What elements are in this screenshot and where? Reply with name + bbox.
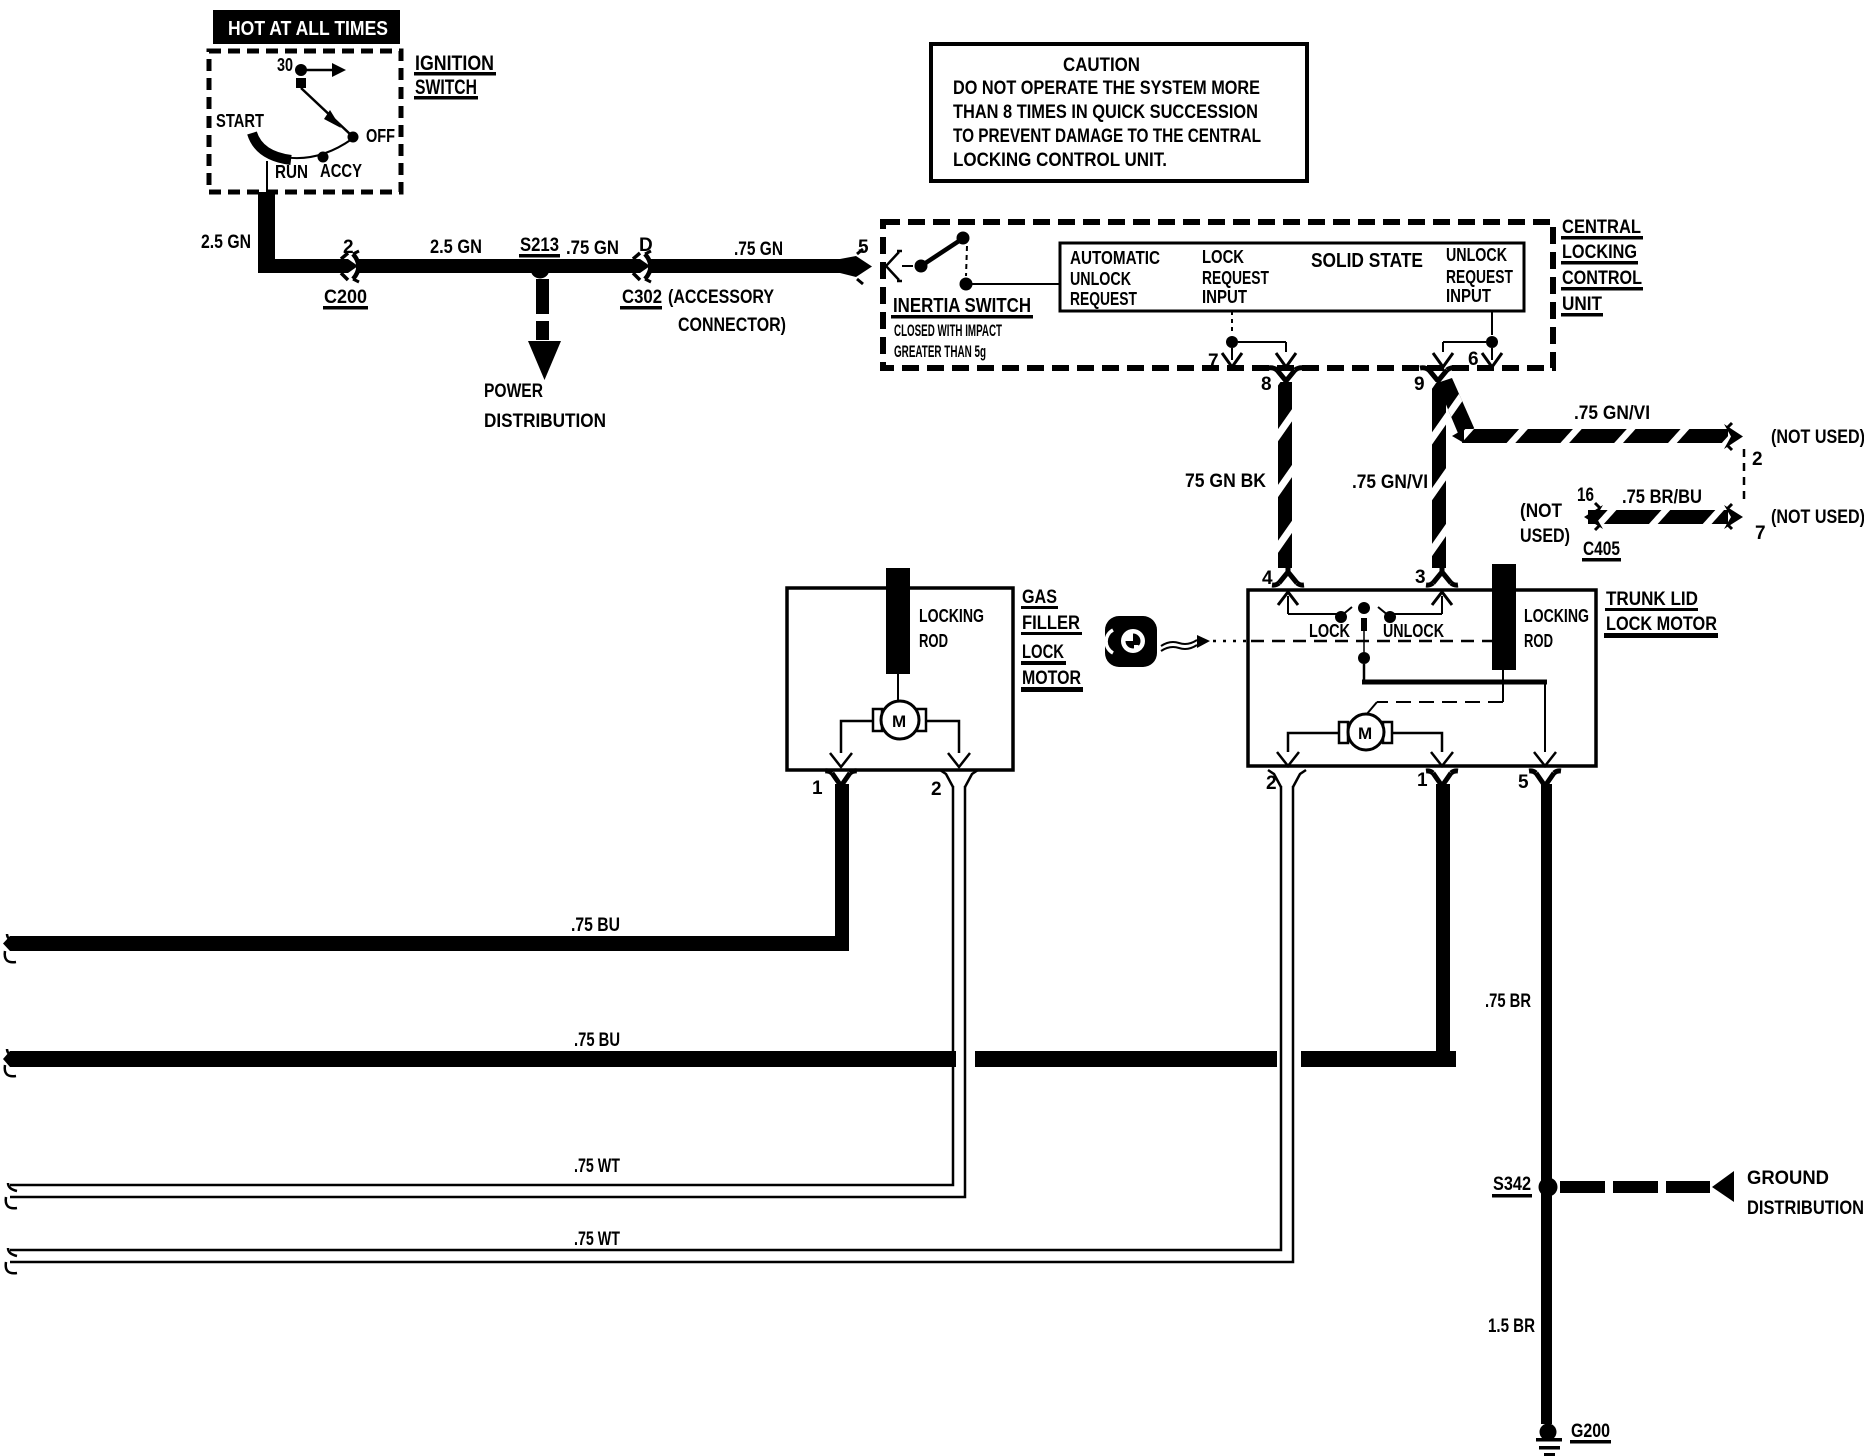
svg-text:6: 6 [1468,349,1479,370]
svg-text:LOCKING: LOCKING [1562,242,1637,263]
svg-text:DO NOT OPERATE THE SYSTEM MORE: DO NOT OPERATE THE SYSTEM MORE [953,78,1260,99]
svg-text:.75 WT: .75 WT [574,1156,620,1177]
svg-text:GAS: GAS [1022,587,1057,608]
dashed link between not-used pins [1743,449,1746,504]
rod link to motor [897,674,899,701]
key dashed line inside trunk box [1251,640,1492,643]
pin 7 female arrow [1222,353,1242,367]
wire .75 BU gas pin 1 [3,784,849,962]
svg-text:INPUT: INPUT [1202,287,1247,307]
splice S342 [1492,1174,1558,1198]
svg-text:G200: G200 [1571,1421,1610,1442]
svg-text:START: START [216,111,264,131]
svg-text:.75 BU: .75 BU [571,915,620,936]
svg-text:UNLOCK: UNLOCK [1070,269,1131,289]
branch wire .75 GN/VI to not used [1437,378,1743,450]
svg-text:MOTOR: MOTOR [1022,668,1081,689]
svg-text:REQUEST: REQUEST [1446,267,1513,287]
svg-text:.75 BU: .75 BU [574,1030,620,1051]
svg-text:LOCK: LOCK [1022,642,1064,663]
ground distribution dashed wire [1560,1168,1864,1219]
svg-text:ACCY: ACCY [320,161,362,181]
svg-text:2.5 GN: 2.5 GN [201,232,251,253]
wire inside box [266,161,268,192]
caution box [931,44,1307,181]
svg-text:INPUT: INPUT [1446,286,1491,306]
pin 4 male connector [1262,566,1304,589]
svg-text:ROD: ROD [1524,631,1553,651]
svg-text:30: 30 [277,55,293,75]
wire .75 BR trunk pin 5 to ground [1541,784,1552,1424]
svg-text:UNIT: UNIT [1562,294,1602,315]
solid state inner box [1060,243,1524,311]
svg-text:.75 GN/VI: .75 GN/VI [1352,472,1428,493]
svg-text:REQUEST: REQUEST [1070,289,1137,309]
svg-text:8: 8 [1261,374,1272,395]
trunk pin 4 female arrow [1278,592,1298,614]
svg-text:C200: C200 [324,287,367,308]
svg-text:INERTIA SWITCH: INERTIA SWITCH [893,295,1031,317]
svg-text:CONTROL: CONTROL [1562,268,1642,289]
svg-text:CONNECTOR): CONNECTOR) [678,315,786,336]
ACCY dot [318,152,329,163]
inertia switch [891,232,1060,362]
main feed bus wire [258,259,348,273]
svg-text:THAN 8 TIMES IN QUICK SUCCESSI: THAN 8 TIMES IN QUICK SUCCESSION [953,102,1258,123]
gas filler motor M [873,701,926,739]
power distribution drop from S213 [484,279,606,432]
svg-text:SOLID STATE: SOLID STATE [1311,250,1423,272]
svg-text:OFF: OFF [366,126,395,146]
svg-text:9: 9 [1414,374,1425,395]
svg-text:7: 7 [1208,351,1219,372]
pin 9 female arrow [1433,353,1453,367]
splice S213 [519,235,560,279]
svg-text:SWITCH: SWITCH [415,76,477,99]
gas motor wires to pins [841,721,959,753]
svg-text:16: 16 [1577,485,1594,506]
terminal 30 dot [295,64,307,76]
TRUNK LID LOCK MOTOR label [1604,589,1718,638]
svg-text:UNLOCK: UNLOCK [1446,245,1507,265]
svg-text:TRUNK LID: TRUNK LID [1606,589,1698,610]
key symbol [1105,616,1157,667]
pin 5 female arrow inside CLCU [886,251,902,281]
svg-text:TO PREVENT DAMAGE TO THE CENTR: TO PREVENT DAMAGE TO THE CENTRAL [953,126,1261,147]
svg-text:75 GN BK: 75 GN BK [1185,471,1266,492]
svg-text:2: 2 [343,237,354,258]
svg-text:IGNITION: IGNITION [415,52,494,75]
svg-text:FILLER: FILLER [1022,613,1080,634]
trunk lock switch [1288,602,1444,664]
svg-text:CENTRAL: CENTRAL [1562,217,1641,238]
arrow from 30 [301,69,332,72]
connector C200 [323,237,368,310]
svg-text:REQUEST: REQUEST [1202,268,1269,288]
svg-text:DISTRIBUTION: DISTRIBUTION [1747,1198,1864,1219]
svg-text:C405: C405 [1583,539,1620,560]
svg-text:7: 7 [1755,523,1766,544]
HOT AT ALL TIMES banner [213,10,400,44]
svg-text:(ACCESSORY: (ACCESSORY [668,287,774,308]
svg-text:GROUND: GROUND [1747,1168,1829,1189]
svg-text:.75 BR: .75 BR [1485,991,1531,1012]
svg-text:CLOSED WITH IMPACT: CLOSED WITH IMPACT [894,321,1002,340]
svg-text:RUN: RUN [275,162,308,182]
svg-text:M: M [892,712,906,731]
unlock request output node [1443,311,1498,360]
rotor wiper [252,133,291,160]
svg-text:3: 3 [1415,567,1426,588]
pin 9 male connector [1414,368,1456,395]
svg-text:GREATER THAN 5g: GREATER THAN 5g [894,342,986,361]
svg-text:.75 WT: .75 WT [574,1229,620,1250]
wire .75 WT trunk pin 2 [6,786,1293,1273]
female arrows at trunk box bottom [1277,752,1556,766]
svg-text:LOCK MOTOR: LOCK MOTOR [1606,614,1717,635]
pin 8 male connector [1261,368,1304,395]
svg-text:S342: S342 [1493,1174,1531,1195]
svg-text:D: D [639,235,653,256]
trunk locking rod [1492,564,1516,670]
wire .75 GN/VI pin 9 to pin 3 [1432,382,1446,568]
contact square [296,78,306,88]
svg-text:.75 GN: .75 GN [566,238,619,259]
svg-text:S213: S213 [520,235,559,256]
svg-text:CAUTION: CAUTION [1063,55,1140,76]
switch output wire to pin 5 [1362,664,1547,752]
svg-text:4: 4 [1262,568,1273,589]
pin 6 female arrow [1482,353,1502,367]
svg-text:LOCK: LOCK [1202,247,1244,267]
svg-text:LOCK: LOCK [1309,621,1350,641]
svg-text:.75 BR/BU: .75 BR/BU [1622,487,1702,508]
svg-text:2: 2 [1752,449,1763,470]
pin 8 female arrow [1276,353,1296,367]
ground G200 [1536,1421,1611,1456]
ignition switch internals [216,55,395,192]
svg-text:.75 GN: .75 GN [734,239,783,260]
gas pin 1 male connector [812,771,857,799]
svg-text:5: 5 [858,237,869,258]
svg-text:(NOT: (NOT [1520,501,1562,522]
trunk motor M [1339,714,1392,750]
GAS FILLER LOCK MOTOR label [1021,587,1083,692]
bus flare at pin 5 [840,256,856,277]
svg-text:M: M [1358,724,1372,743]
wire 75 GN BK pin 8 to pin 4 [1278,382,1292,568]
svg-text:HOT AT ALL TIMES: HOT AT ALL TIMES [228,18,388,40]
key actuation dashed arrow [1161,635,1246,651]
position arc [256,139,352,158]
wire .75 BR/BU not used [1520,485,1864,562]
svg-text:POWER: POWER [484,381,543,402]
svg-text:(NOT USED): (NOT USED) [1771,507,1864,528]
switch blade to OFF [301,88,351,135]
female arrows at gas box bottom [830,753,970,767]
trunk pin 2 male connector (white wire) [1266,770,1306,794]
svg-text:1: 1 [812,778,823,799]
trunk pin 3 female arrow [1432,592,1452,614]
svg-text:ROD: ROD [919,631,948,651]
trunk pin 5 male connector [1518,771,1561,793]
svg-text:2: 2 [931,779,942,800]
svg-text:UNLOCK: UNLOCK [1383,621,1444,641]
wire .75 WT gas pin 2 [6,786,965,1208]
gas filler lock motor box [787,588,1013,770]
trunk motor wires to pins [1288,733,1442,752]
CENTRAL LOCKING CONTROL UNIT label [1561,217,1643,317]
wire 2.5 GN from ignition switch [258,192,275,273]
rod feedback dashed wire [1366,670,1503,715]
gas pin 2 male connector (white wire) [931,770,978,800]
svg-text:USED): USED) [1520,526,1570,547]
trunk pin 1 male connector [1417,770,1458,791]
svg-text:5: 5 [1518,772,1529,793]
svg-text:1.5 BR: 1.5 BR [1488,1316,1535,1337]
central locking control unit dashed box [883,222,1553,368]
gas filler locking rod [886,568,910,674]
svg-text:LOCKING: LOCKING [919,606,984,626]
svg-text:LOCKING CONTROL UNIT.: LOCKING CONTROL UNIT. [953,150,1167,171]
connector C302 [620,235,786,336]
svg-text:C302: C302 [622,287,662,308]
ignition switch dashed box [209,51,401,192]
svg-text:(NOT USED): (NOT USED) [1771,427,1864,448]
svg-text:DISTRIBUTION: DISTRIBUTION [484,411,606,432]
lock request output node [1226,311,1286,360]
svg-text:LOCKING: LOCKING [1524,606,1589,626]
svg-text:AUTOMATIC: AUTOMATIC [1070,248,1160,268]
svg-text:2.5 GN: 2.5 GN [430,237,482,258]
IGNITION SWITCH label [414,52,496,100]
OFF dot [348,132,359,143]
svg-text:.75 GN/VI: .75 GN/VI [1574,403,1650,424]
pin 3 male connector [1415,566,1458,588]
trunk lid lock motor box [1248,590,1596,766]
wire .75 BU trunk pin 1 [3,784,1456,1076]
